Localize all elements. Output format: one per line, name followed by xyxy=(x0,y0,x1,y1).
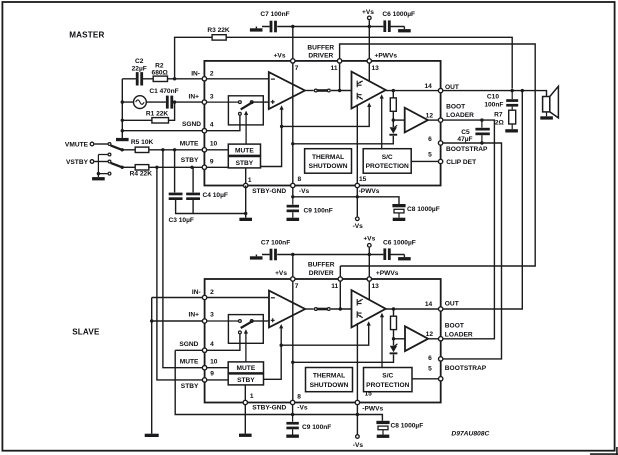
svg-text:LOADER: LOADER xyxy=(446,112,474,119)
svg-text:2: 2 xyxy=(210,289,214,296)
arrow S/C to power amp (master) xyxy=(381,97,383,148)
svg-text:BOOTSTRAP: BOOTSTRAP xyxy=(445,365,487,372)
wire power out to pin14 (slave) xyxy=(386,308,439,310)
node IN+ tie junction (slave) xyxy=(150,319,153,322)
svg-text:S/C: S/C xyxy=(382,154,393,161)
pin 14 OUT (master) xyxy=(438,88,442,92)
svg-text:-Vs: -Vs xyxy=(299,188,310,195)
ground C8 (master) xyxy=(393,218,406,221)
terminal -Vs (master) xyxy=(356,217,360,221)
pin 13 +PWVs (master) xyxy=(367,59,371,63)
arrow S/C to power amp (slave) xyxy=(381,316,383,368)
wire pin11 riser (slave) xyxy=(339,266,341,276)
svg-text:R4 22K: R4 22K xyxy=(130,171,153,178)
svg-text:STBY: STBY xyxy=(236,160,254,167)
node IN+ junction xyxy=(173,100,176,103)
pin 5 CLIP DET (master) xyxy=(438,159,442,163)
wire IN- to R3 (master) xyxy=(175,37,213,79)
node control branch (slave) xyxy=(280,344,283,347)
svg-text:10: 10 xyxy=(210,359,218,366)
ground C9 (master) xyxy=(287,218,300,221)
ground C9 (slave) xyxy=(286,435,299,438)
pin 11 BUFFER DRIVER (slave) xyxy=(338,277,342,281)
zener bootstrap diode (slave) xyxy=(390,346,397,352)
block STBY (master) xyxy=(228,157,260,168)
pin 1 STBY-GND (slave) xyxy=(243,400,247,404)
wire R7 to ground xyxy=(511,124,513,129)
svg-text:+Vs: +Vs xyxy=(363,235,375,242)
svg-text:C4 10µF: C4 10µF xyxy=(203,192,228,199)
capacitor C5 47µF xyxy=(475,128,489,131)
svg-text:R7: R7 xyxy=(494,112,503,119)
svg-text:IN+: IN+ xyxy=(189,312,200,319)
wire opamp out (master) xyxy=(305,90,314,92)
switch box input mute (slave) xyxy=(228,315,263,344)
IC TDA7293 master body xyxy=(204,61,440,186)
svg-text:C3 10µF: C3 10µF xyxy=(169,217,194,224)
svg-text:2Ω: 2Ω xyxy=(495,119,505,126)
svg-text:STBY: STBY xyxy=(181,157,199,164)
pin 6 BOOTSTRAP (master) xyxy=(438,141,442,145)
wire speaker ground stem xyxy=(546,112,548,116)
svg-text:-Vs: -Vs xyxy=(353,442,364,449)
wire blade to R5 xyxy=(122,149,135,151)
wire into switch (master) xyxy=(207,101,238,103)
pin 10 MUTE (slave) xyxy=(202,366,206,370)
switch interstage link (master) xyxy=(314,89,317,92)
op-amp input stage (master) xyxy=(269,72,305,109)
ground C8 (slave) xyxy=(377,435,390,438)
wire VMUTE to contact xyxy=(94,143,108,145)
node stby-gnd junction (master) xyxy=(244,212,247,215)
svg-text:THERMAL: THERMAL xyxy=(312,154,344,161)
svg-text:R3 22K: R3 22K xyxy=(207,27,230,34)
svg-text:SGND: SGND xyxy=(182,121,201,128)
IC TDA7293 slave body xyxy=(205,279,441,403)
svg-text:MUTE: MUTE xyxy=(235,147,254,154)
block MUTE (slave) xyxy=(228,362,263,373)
wire MUTE master to slave pin10 xyxy=(163,150,202,368)
switch S-mute contact xyxy=(108,143,111,146)
wire SGND jog to switch (slave) xyxy=(207,334,240,350)
svg-text:R1 22K: R1 22K xyxy=(146,110,169,117)
node STBY junctions xyxy=(155,166,158,169)
wire C4 riser xyxy=(192,167,194,192)
node bootstrap resistor tap (slave) xyxy=(392,307,395,310)
arrow control to power amp (slave) xyxy=(368,323,370,326)
svg-text:OUT: OUT xyxy=(445,301,459,308)
op-amp minus sign (master) xyxy=(271,78,275,80)
wire C5 stem bottom xyxy=(481,135,483,143)
node rail junctions xyxy=(121,100,124,103)
wire pin7 riser (master) xyxy=(292,27,294,59)
power stage triangle (master) xyxy=(352,72,386,109)
resistor R1 22K xyxy=(152,118,169,123)
wire IN+ inside (master) xyxy=(253,101,268,103)
svg-text:+Vs: +Vs xyxy=(362,9,374,16)
capacitor C9 100nF (master) xyxy=(287,205,299,208)
svg-text:OUT: OUT xyxy=(445,84,459,91)
svg-text:S/C: S/C xyxy=(382,373,393,380)
wire stby control riser (slave) xyxy=(264,328,282,380)
wire C3 C4 ground line xyxy=(176,200,246,214)
terminal +Vs (slave) xyxy=(368,244,372,248)
wire C10 stem xyxy=(511,91,513,100)
svg-text:DRIVER: DRIVER xyxy=(309,270,334,277)
node pin11 tap (master) xyxy=(338,89,341,92)
pin 6 BOOTSTRAP (slave) xyxy=(439,357,443,361)
capacitor C8 1000µF (master) xyxy=(392,204,405,207)
wire pin8 drop (master) xyxy=(292,188,294,197)
pin 5 CLIP DET (slave) xyxy=(439,377,443,381)
wire VSTBY to contact xyxy=(94,161,108,163)
svg-text:SHUTDOWN: SHUTDOWN xyxy=(309,163,348,170)
pin 2 IN- (slave) xyxy=(202,295,206,299)
svg-text:C9 100nF: C9 100nF xyxy=(302,424,331,431)
wire link to power amp (slave) xyxy=(331,308,352,310)
svg-text:C1 470nF: C1 470nF xyxy=(149,88,178,95)
arrow mute control (slave) xyxy=(245,332,247,362)
switch S-mute blade xyxy=(111,145,123,150)
node control branch (master) xyxy=(280,125,283,128)
wire input ground rail xyxy=(121,79,123,138)
svg-text:C8 1000µF: C8 1000µF xyxy=(407,206,440,213)
svg-text:C8 1000µF: C8 1000µF xyxy=(391,423,424,430)
arrow mute control (master) xyxy=(245,114,247,144)
wire STBY row (master) xyxy=(149,166,202,168)
pin 2 IN- (master) xyxy=(202,77,206,81)
wire opamp out (slave) xyxy=(305,308,314,310)
svg-text:100nF: 100nF xyxy=(484,101,503,108)
power stage triangle (slave) xyxy=(352,290,386,327)
switch contacts (master IC) xyxy=(239,101,242,104)
capacitor C6 (master) xyxy=(383,20,386,32)
pin 10 MUTE (master) xyxy=(202,148,206,152)
node zobel tap (master) xyxy=(511,89,514,92)
wire pin10 to MUTE block (master) xyxy=(207,149,228,151)
svg-text:STBY: STBY xyxy=(237,377,255,384)
terminal +Vs (master) xyxy=(368,16,372,20)
svg-text:12: 12 xyxy=(426,113,434,120)
svg-text:14: 14 xyxy=(425,301,433,308)
capacitor C2 22µF xyxy=(136,72,139,85)
svg-text:8: 8 xyxy=(297,393,301,400)
ground stby switch xyxy=(92,177,105,180)
wire pin13 into power stage (slave) xyxy=(368,282,370,300)
svg-text:SLAVE: SLAVE xyxy=(72,328,100,337)
svg-text:C6 1000µF: C6 1000µF xyxy=(383,239,416,246)
zener bootstrap diode (master) xyxy=(390,127,397,133)
svg-text:7: 7 xyxy=(295,65,299,72)
block STBY (slave) xyxy=(228,374,263,385)
capacitor C7 (master) xyxy=(270,21,273,33)
wire pin8 drop (slave) xyxy=(292,405,294,415)
wire into switch (slave) xyxy=(207,320,238,322)
wire pin15 riser internal (master) xyxy=(356,104,358,183)
ground speaker xyxy=(540,116,553,119)
pin 12 BOOT LOADER (slave) xyxy=(439,337,443,341)
svg-text:PROTECTION: PROTECTION xyxy=(366,163,409,170)
arrow control to op-amp (master) xyxy=(281,108,283,111)
svg-text:4: 4 xyxy=(210,122,214,129)
switch blade (slave IC) xyxy=(241,321,253,328)
svg-text:3: 3 xyxy=(210,312,214,319)
svg-text:BOOT: BOOT xyxy=(445,323,464,330)
pin 12 BOOT LOADER (master) xyxy=(438,118,442,122)
node C5 bottom tap xyxy=(480,141,483,144)
wire IN+ inside (slave) xyxy=(253,320,269,322)
pin 15 -PWVs (slave) xyxy=(355,400,359,404)
pin 3 IN+ (slave) xyxy=(202,319,206,323)
resistor bootstrap internal (slave) xyxy=(391,316,397,329)
pin 4 SGND (master) xyxy=(202,129,206,133)
ground C6 (master) xyxy=(398,29,411,32)
svg-text:-Vs: -Vs xyxy=(353,223,364,230)
node boot loader tap (slave) xyxy=(392,337,395,340)
svg-text:MASTER: MASTER xyxy=(69,31,104,40)
wire C2 row xyxy=(122,78,153,80)
switch blade (master IC) xyxy=(241,102,253,109)
capacitor C3 10µF xyxy=(169,193,183,196)
svg-text:6: 6 xyxy=(428,355,432,362)
svg-text:C2: C2 xyxy=(135,58,144,65)
ground STBY-GND (master) xyxy=(239,218,252,221)
terminal VSTBY xyxy=(90,160,94,164)
op-amp minus sign (slave) xyxy=(271,297,275,299)
wire IN- tie (slave) xyxy=(152,297,202,299)
block S/C PROTECTION (master) xyxy=(363,149,411,174)
svg-text:8: 8 xyxy=(298,176,302,183)
node boot loader tap (master) xyxy=(392,118,395,121)
wire C3 riser xyxy=(174,150,176,193)
wire IN+ tie (slave) xyxy=(152,320,202,322)
node speaker tap (master) xyxy=(521,89,524,92)
svg-text:2: 2 xyxy=(210,70,214,77)
wire boot loader master-slave xyxy=(443,120,494,339)
wire C10 to R7 xyxy=(511,107,513,111)
svg-text:11: 11 xyxy=(331,65,338,72)
op-amp input stage (slave) xyxy=(269,291,305,328)
svg-text:PROTECTION: PROTECTION xyxy=(366,382,409,389)
wire pin13 into power stage (master) xyxy=(368,63,370,81)
pin 11 BUFFER DRIVER (master) xyxy=(337,59,341,63)
wire source row xyxy=(122,101,166,103)
svg-text:SHUTDOWN: SHUTDOWN xyxy=(310,382,349,389)
svg-text:IN-: IN- xyxy=(192,289,201,296)
node pin15 -Vs tap (master) xyxy=(356,195,359,198)
wire SGND row xyxy=(122,130,202,132)
wire pin10 to MUTE block (slave) xyxy=(207,367,228,369)
resistor R7 2Ω xyxy=(509,110,516,124)
node pin11 tap (slave) xyxy=(339,307,342,310)
wire OUT master-slave xyxy=(443,91,522,309)
wire to boot loader amp (master) xyxy=(393,119,404,121)
wire +Vs terminal stem (slave) xyxy=(368,248,370,255)
boot loader buffer (master) xyxy=(405,108,428,133)
switch S-stby blade xyxy=(111,163,123,167)
wire -Vs terminal stem (slave) xyxy=(356,405,358,434)
svg-text:D97AU808C: D97AU808C xyxy=(451,430,489,437)
block THERMAL SHUTDOWN (master) xyxy=(305,149,352,174)
switch S-stby contacts xyxy=(108,153,111,156)
switch box input mute (master) xyxy=(228,96,263,125)
wire block to pin1 (master) xyxy=(245,168,247,183)
node +Vs junctions (slave) xyxy=(291,253,294,256)
svg-text:IN+: IN+ xyxy=(189,94,200,101)
svg-text:LOADER: LOADER xyxy=(445,331,473,338)
wire zener stem (master) xyxy=(392,120,394,127)
wire SGND to corner (slave) xyxy=(175,349,202,351)
wire pin13 riser (slave) xyxy=(368,255,370,277)
svg-text:C5: C5 xyxy=(461,129,470,136)
wire pin9 to STBY block (master) xyxy=(207,166,228,168)
block S/C PROTECTION (slave) xyxy=(364,368,413,392)
wire input ground riser (slave) xyxy=(151,298,153,434)
svg-text:C9 100nF: C9 100nF xyxy=(304,207,333,214)
capacitor C1 470nF xyxy=(166,96,169,109)
svg-text:BUFFER: BUFFER xyxy=(308,261,335,268)
node -Vs junction (master) xyxy=(291,195,294,198)
transistor glyphs (master) xyxy=(357,81,363,88)
svg-text:+Vs: +Vs xyxy=(274,53,286,60)
capacitor C6 (slave) xyxy=(383,248,386,260)
wire stby control riser (master) xyxy=(261,109,282,167)
arrow control to power amp (master) xyxy=(368,105,370,108)
pin 8 -Vs (slave) xyxy=(290,400,294,404)
svg-text:11: 11 xyxy=(331,283,338,290)
wire R1 to IN+ node xyxy=(169,102,175,120)
svg-text:MUTE: MUTE xyxy=(180,359,199,366)
svg-text:STBY-GND: STBY-GND xyxy=(252,404,286,411)
node +Vs junctions (master) xyxy=(291,25,294,28)
svg-text:-PWVs: -PWVs xyxy=(359,188,380,195)
svg-text:DRIVER: DRIVER xyxy=(308,52,333,59)
switch interstage link (slave) xyxy=(314,308,317,311)
svg-text:C10: C10 xyxy=(487,93,499,100)
wire SGND/-Vs bottom line (slave) xyxy=(175,350,382,421)
capacitor C10 100nF xyxy=(506,99,518,102)
wire stby ground throws xyxy=(98,155,108,178)
svg-text:22µF: 22µF xyxy=(132,66,147,73)
resistor bootstrap internal (master) xyxy=(390,98,396,111)
capacitor C8 1000µF (slave) xyxy=(376,421,389,424)
wire zener return line (master) xyxy=(293,136,394,144)
wire bootstrap master-slave xyxy=(443,143,501,359)
svg-text:5: 5 xyxy=(428,366,432,373)
svg-text:7: 7 xyxy=(295,283,299,290)
node IN- junction xyxy=(173,77,176,80)
svg-text:VSTBY: VSTBY xyxy=(66,159,89,166)
wire -Vs line (master) xyxy=(293,197,399,204)
node MUTE junctions xyxy=(161,148,164,151)
resistor R4 22K xyxy=(135,165,149,170)
wire pin1 to ground (master) xyxy=(245,186,247,218)
svg-text:680Ω: 680Ω xyxy=(152,70,169,77)
pin 7 +Vs (master) xyxy=(291,59,295,63)
capacitor C9 100nF (slave) xyxy=(286,422,298,425)
svg-text:IN-: IN- xyxy=(191,70,200,77)
wire C1 to pin3 xyxy=(173,101,202,103)
svg-text:13: 13 xyxy=(372,283,380,290)
wire SGND jog to switch (master) xyxy=(207,115,240,130)
speaker xyxy=(543,97,550,112)
capacitor C4 10µF xyxy=(186,193,200,196)
ground slave inputs xyxy=(145,434,159,437)
svg-text:-PWVs: -PWVs xyxy=(362,406,383,413)
terminal VMUTE xyxy=(90,142,94,146)
pin 15 -PWVs (master) xyxy=(355,183,359,187)
wire pin11 internal riser (master) xyxy=(339,63,341,90)
wire IN- inside (slave) xyxy=(207,297,269,299)
wire power out to pin14 (master) xyxy=(386,90,438,92)
svg-text:1: 1 xyxy=(250,393,254,400)
resistor R5 10K xyxy=(135,147,149,152)
wire boot loader to pin12 (slave) xyxy=(428,338,438,340)
svg-text:+Vs: +Vs xyxy=(275,270,287,277)
node bootstrap resistor tap (master) xyxy=(392,89,395,92)
node pin8 -Vs junction (slave) xyxy=(291,413,294,416)
switch contacts (slave IC) xyxy=(239,320,242,323)
wire C9 ground stem (slave) xyxy=(292,429,294,434)
wire pin11 internal riser (slave) xyxy=(339,282,341,310)
node supply rail tap (master) xyxy=(291,142,294,145)
wire OUT line (master) xyxy=(443,91,546,97)
wire internal supply rail (slave) xyxy=(292,282,294,401)
resistor R3 22K (master) xyxy=(212,35,226,40)
wire +Vs supply rail (master) xyxy=(256,27,404,30)
ground C7 (slave) xyxy=(250,256,263,259)
wire C8 ground stem (slave) xyxy=(382,430,384,435)
svg-text:+PWVs: +PWVs xyxy=(376,270,399,277)
wire blade to R4 xyxy=(122,166,135,168)
ground STBY-GND (slave) xyxy=(239,434,252,437)
wire buffer driver loop pin11 master-slave xyxy=(340,44,536,266)
svg-text:+PWVs: +PWVs xyxy=(375,52,398,59)
wire R2 to pin2 xyxy=(168,78,203,80)
capacitor C7 (slave) xyxy=(270,249,273,261)
svg-text:12: 12 xyxy=(426,331,434,338)
pin 4 SGND (slave) xyxy=(202,348,206,352)
wire C9 ground stem (master) xyxy=(292,212,294,218)
op-amp plus sign (slave) xyxy=(271,318,275,322)
wire zener stem (slave) xyxy=(393,339,395,346)
svg-text:15: 15 xyxy=(365,391,373,398)
wire block to pin1 (slave) xyxy=(244,385,246,400)
pin 13 +PWVs (slave) xyxy=(367,277,371,281)
svg-text:13: 13 xyxy=(372,65,380,72)
ground C6 (slave) xyxy=(398,257,411,260)
node pin15 tap (slave) xyxy=(356,413,359,416)
svg-text:STBY-GND: STBY-GND xyxy=(252,188,286,195)
wire IN- inside (master) xyxy=(207,78,269,80)
wire pin9 to STBY block (slave) xyxy=(207,379,228,381)
ground zobel xyxy=(505,129,518,132)
wire link to power amp (master) xyxy=(331,90,352,92)
transistor glyphs (slave) xyxy=(357,299,363,306)
node supply rail tap (slave) xyxy=(291,361,294,364)
wire pin15 riser internal (slave) xyxy=(356,323,358,400)
svg-text:CLIP DET: CLIP DET xyxy=(446,159,476,166)
svg-text:5: 5 xyxy=(428,151,432,158)
svg-text:VMUTE: VMUTE xyxy=(65,142,89,149)
svg-text:9: 9 xyxy=(210,371,214,378)
pin 14 OUT (slave) xyxy=(439,307,443,311)
wire C9 stem (slave) xyxy=(292,415,294,422)
wire C9 stem (master) xyxy=(292,197,294,205)
wire STBY master to slave pin9 xyxy=(157,167,202,380)
block THERMAL SHUTDOWN (slave) xyxy=(306,368,353,392)
wire to boot loader amp (slave) xyxy=(394,338,406,340)
